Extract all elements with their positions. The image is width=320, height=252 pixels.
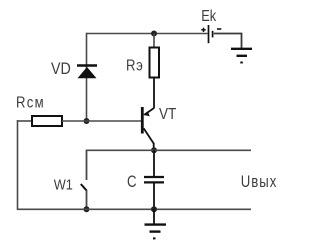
node top junction (Rэ tap) <box>151 31 157 37</box>
wire bottom rail <box>17 208 251 210</box>
wire to bottom ground <box>153 209 155 224</box>
wire diode branch vertical <box>86 33 88 121</box>
wire Rсм left lead <box>17 120 32 122</box>
node emitter-output junction <box>151 147 157 153</box>
capacitor C <box>144 177 164 182</box>
wire output top line <box>87 149 252 151</box>
wire battery to right ground <box>214 34 242 49</box>
resistor Rэ <box>150 48 160 78</box>
svg-text:Rсм: Rсм <box>16 95 45 112</box>
ground right (power return) <box>231 49 252 63</box>
wire capacitor top lead <box>153 150 155 176</box>
wire top rail from diode branch to battery <box>87 33 208 35</box>
svg-text:C: C <box>127 173 137 192</box>
svg-text:Rэ: Rэ <box>126 58 143 75</box>
wire left vertical <box>17 120 19 209</box>
wire base lead <box>62 120 142 122</box>
wire capacitor bottom lead <box>153 183 155 209</box>
svg-text:Uвых: Uвых <box>241 173 277 192</box>
diode VD <box>77 66 97 79</box>
wire Rэ bottom to transistor emitter <box>153 78 155 109</box>
resistor Rсм <box>32 116 62 126</box>
ground bottom <box>145 225 167 239</box>
svg-text:VT: VT <box>159 106 176 123</box>
svg-text:Ek: Ek <box>201 8 217 26</box>
node capacitor-ground junction <box>151 206 157 212</box>
node switch-bottom junction <box>84 206 90 212</box>
svg-text:VD: VD <box>51 60 71 78</box>
battery Ek <box>201 25 221 43</box>
node base junction <box>84 118 90 124</box>
transistor VT <box>142 107 154 150</box>
svg-text:W1: W1 <box>54 176 73 193</box>
switch W1 <box>81 150 87 210</box>
wire junction to Rэ top <box>153 34 155 48</box>
